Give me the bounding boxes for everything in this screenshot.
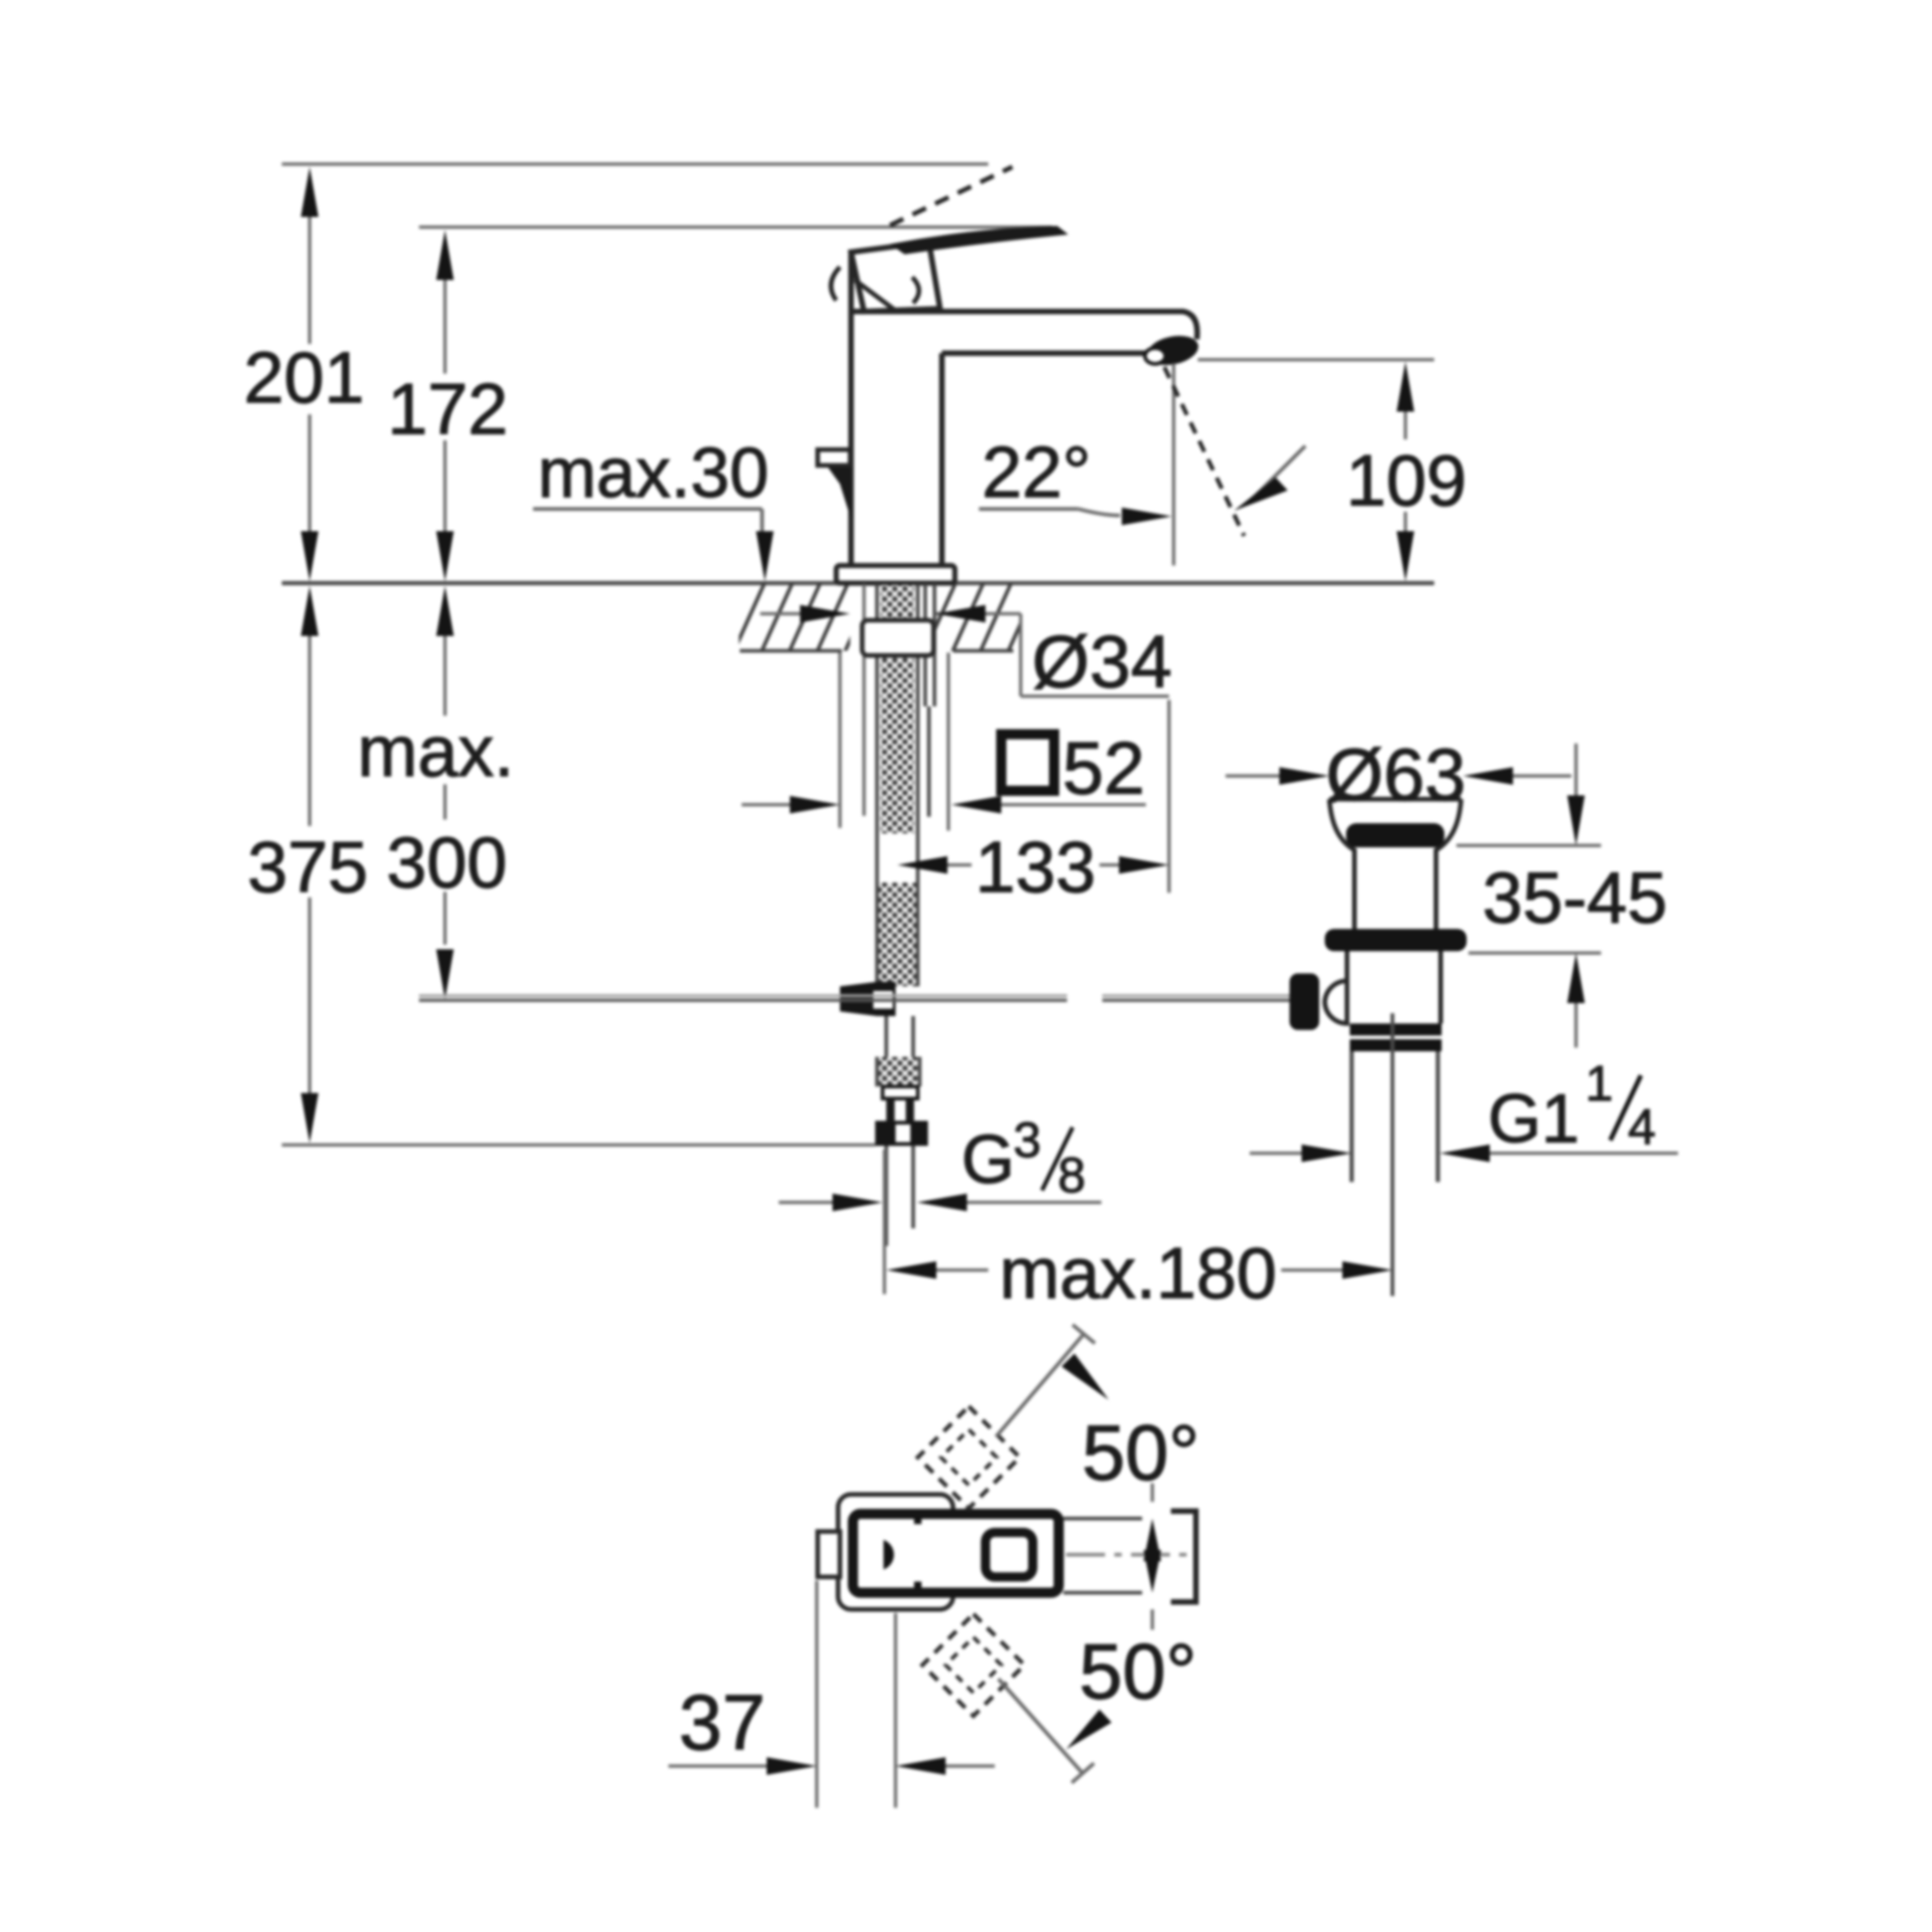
pop-up rod horizontal line (419, 996, 1290, 1000)
svg-text:50°: 50° (1082, 1409, 1200, 1496)
dimension O63 arrows (1226, 768, 1571, 785)
plan: spout tube lines (1063, 1519, 1142, 1593)
handle block (851, 242, 940, 311)
dimension 201 vertical line with arrows (301, 167, 319, 581)
dimension G3/8 arrows (779, 1194, 1101, 1212)
handle block inner diagonal (855, 280, 896, 311)
drain vertical rod (1391, 1013, 1394, 1296)
50deg upper leader with arrow (997, 1325, 1109, 1436)
svg-text:max.: max. (357, 710, 514, 792)
svg-text:8: 8 (1058, 1148, 1086, 1203)
dashed raised-lever line (890, 167, 1012, 225)
dimension 109 vertical with arrows (1397, 362, 1415, 581)
mounting nut (862, 620, 934, 655)
drain plug black band (1346, 823, 1444, 847)
plan: tube width arrows (1144, 1483, 1162, 1630)
plan: spout square opening (985, 1532, 1033, 1577)
svg-text:35-45: 35-45 (1482, 857, 1668, 938)
supply pipe to G3/8 connector (875, 1016, 928, 1246)
drain rubber washer (1325, 929, 1467, 951)
stream leader arrow (1234, 446, 1305, 511)
svg-text:1: 1 (1585, 1056, 1613, 1112)
svg-text:37: 37 (679, 1679, 765, 1766)
svg-text:50°: 50° (1079, 1628, 1197, 1715)
countertop underside line right (953, 649, 1013, 653)
dimension max300 vertical line (437, 586, 454, 999)
label max.30 with leader line and arrow (533, 434, 774, 581)
dimension G1 1/4 arrows (1250, 1145, 1678, 1163)
faucet shank threaded section (864, 584, 934, 834)
svg-text:G1: G1 (1488, 1080, 1580, 1157)
drain cup right wall (1436, 799, 1461, 929)
wire: 172 top reference line (419, 225, 1052, 229)
max180 left extension line (883, 1150, 886, 1294)
faucet body right edge (939, 353, 945, 566)
37 extension lines (817, 1581, 896, 1808)
handle block arc mark right (912, 277, 919, 303)
countertop surface line (282, 581, 1434, 586)
svg-text:Ø63: Ø63 (1326, 733, 1466, 816)
dimension 172 vertical line with arrows (437, 230, 454, 581)
faucet spout underside (942, 350, 1148, 356)
dimension square52 arrows (742, 796, 1146, 814)
svg-text:3: 3 (1013, 1112, 1041, 1168)
dashed water stream line (1164, 367, 1244, 536)
hose elbow fitting (840, 982, 896, 1016)
dimension O34 arrows at counter hole (760, 605, 1169, 697)
faucet spout top line (851, 311, 1197, 339)
drain bottom thread bands (1350, 1023, 1442, 1051)
svg-text:375: 375 (248, 826, 368, 908)
dimension 375 vertical line (301, 586, 319, 1143)
plan: dashed swing diamond upper (918, 1406, 1020, 1508)
35-45 reference lines (1456, 845, 1601, 953)
handle block arc mark left (831, 267, 840, 300)
plan: right bracket (1171, 1511, 1196, 1602)
109 spout-height reference line (1198, 358, 1434, 362)
hatching left of shank (732, 580, 877, 655)
wire: 375 bottom reference line (282, 1143, 875, 1147)
label 22deg with underline and leader arrow (979, 431, 1172, 526)
dimension 133 arrows (897, 857, 1169, 874)
svg-text:52: 52 (1062, 727, 1145, 809)
svg-text:22°: 22° (982, 431, 1091, 513)
faucet body left edge (848, 250, 854, 566)
label G1 1/4 (1488, 1056, 1656, 1157)
plan: dashed swing diamond lower (922, 1614, 1024, 1716)
133 right extension line (1167, 700, 1171, 893)
svg-text:G: G (961, 1121, 1015, 1198)
svg-text:172: 172 (388, 368, 508, 450)
drain cup rim (1329, 797, 1461, 802)
svg-text:109: 109 (1346, 439, 1467, 521)
svg-text:201: 201 (244, 337, 364, 418)
dimension 35-45 arrows (1568, 744, 1585, 1048)
svg-text:300: 300 (387, 821, 507, 903)
spout aerator (1144, 332, 1201, 370)
label square52 (1001, 727, 1145, 809)
pop-up lever tab on body (818, 450, 851, 519)
plan: lever tip tab (818, 1532, 840, 1577)
handle lever (893, 227, 1065, 253)
svg-text:max.180: max.180 (999, 1232, 1277, 1314)
plan: handle pivot dot (883, 1540, 894, 1570)
square52 extension lines (840, 653, 948, 831)
dimension max180 arrows (886, 1262, 1392, 1279)
pop-up rod knob (1290, 973, 1319, 1030)
drain body walls (1347, 951, 1441, 1023)
svg-text:max.30: max.30 (538, 434, 769, 513)
plan: small dots (914, 1517, 922, 1589)
dimension 37 arrows (668, 1758, 995, 1775)
plan: escutcheon outer square (838, 1494, 953, 1609)
svg-text:133: 133 (975, 826, 1096, 908)
label G 3/8 (961, 1112, 1086, 1203)
flexible supply hose upper (877, 834, 918, 986)
vertical stream reference line (1172, 363, 1176, 566)
svg-text:Ø34: Ø34 (1032, 620, 1172, 703)
drain cup left wall (1329, 799, 1354, 929)
plan: dash-dot centerline (1066, 1553, 1187, 1557)
base plate escutcheon (836, 566, 955, 583)
plan: faucet body thick rect (853, 1514, 1059, 1593)
hatching right of shank (923, 580, 1040, 655)
countertop underside line left (740, 649, 842, 653)
50deg lower leader with arrow (998, 1679, 1112, 1783)
drain tailpipe (1352, 1051, 1438, 1182)
wire: 201 top reference line (282, 162, 988, 166)
svg-text:4: 4 (1628, 1099, 1656, 1155)
pop-up ball joint (1325, 981, 1347, 1023)
label max 300 (357, 710, 514, 903)
